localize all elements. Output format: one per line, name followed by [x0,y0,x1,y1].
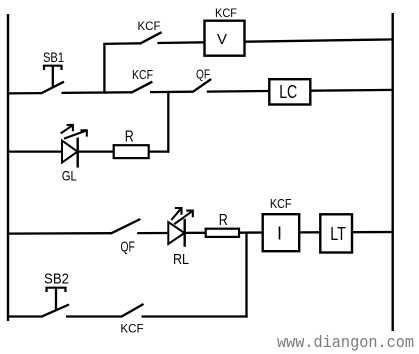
svg-text:LT: LT [330,224,346,244]
pushbutton SB1 stem [52,67,54,87]
svg-text:SB1: SB1 [43,49,64,65]
svg-text:LC: LC [279,82,297,102]
wire row4 LT to right bus [352,231,394,233]
wire row3 R to corner [149,150,170,152]
relay coil I box [263,214,300,251]
svg-text:R: R [219,212,228,229]
svg-text:R: R [125,129,134,146]
lamp LT box [320,214,352,252]
wire vertical connector row3 to row2 [167,92,169,153]
svg-text:www.diangon.com: www.diangon.com [277,334,414,353]
pushbutton SB1 blade [41,82,64,94]
pushbutton SB2 actuator bar [47,288,66,292]
resistor R row4 box [206,229,239,237]
LED GL cathode bar [76,138,78,168]
resistor R row3 box [114,145,149,158]
LED RL triangle [168,222,184,244]
wire row4 QF to RL [137,232,168,234]
contact QF row2 blade [192,79,211,92]
svg-text:RL: RL [173,251,189,268]
right bus [392,13,394,331]
wire row1 right segment [245,39,394,41]
svg-text:KCF: KCF [270,197,292,211]
svg-text:KCF: KCF [215,6,237,20]
svg-text:GL: GL [62,167,77,183]
LED RL arrow 1 [171,208,181,220]
svg-text:QF: QF [121,240,135,256]
wire row2 LC to right bus [311,89,394,92]
pushbutton SB2 blade [41,305,69,317]
contact QF row4 blade [110,219,140,234]
svg-text:V: V [217,31,227,48]
wire row4 from left bus to QF [7,232,111,235]
contact KCF row2 blade [131,82,152,93]
contact KCF row1 blade [140,32,162,44]
pushbutton SB2 stem [55,289,57,311]
wire vertical connector row5 to row4 [245,233,247,318]
wire row2 QF to LC box [207,90,270,93]
wire row3 from left bus to GL [7,150,62,152]
wire row1 mid segment [158,41,206,44]
wire row2 SB1 to KCF [62,91,132,94]
pushbutton SB1 actuator bar [44,66,62,70]
wire row5 SB2 to KCF [66,315,122,317]
wire row2 from left bus to SB1 [7,92,42,95]
contactor coil LC box [269,79,310,104]
wire row4 RL to R [185,232,206,234]
LED GL arrow 2 [64,130,87,138]
wire row5 from left bus to SB2 [7,315,42,317]
svg-text:SB2: SB2 [44,271,69,288]
LED RL arrow 2 [174,211,193,225]
wire row3 GL to R [78,150,114,152]
LED GL triangle [62,141,78,163]
svg-text:KCF: KCF [120,322,143,336]
wire row4 R to I box [239,231,263,233]
wire row2 KCF to QF [150,91,193,94]
wire row1 vertical branch from row2 [103,44,105,94]
svg-text:QF: QF [196,68,210,82]
wire row1 left segment [103,42,140,45]
wire row4 I to LT [299,231,320,233]
LED GL arrow 1 [61,125,73,133]
svg-text:KCF: KCF [132,68,153,82]
contact KCF row5 blade [121,304,144,317]
wire row5 KCF to corner [142,315,248,317]
svg-text:I: I [277,224,282,244]
left bus [7,14,9,321]
svg-text:KCF: KCF [138,19,161,33]
voltmeter V box U1 [205,21,245,56]
LED RL cathode bar [183,219,185,247]
